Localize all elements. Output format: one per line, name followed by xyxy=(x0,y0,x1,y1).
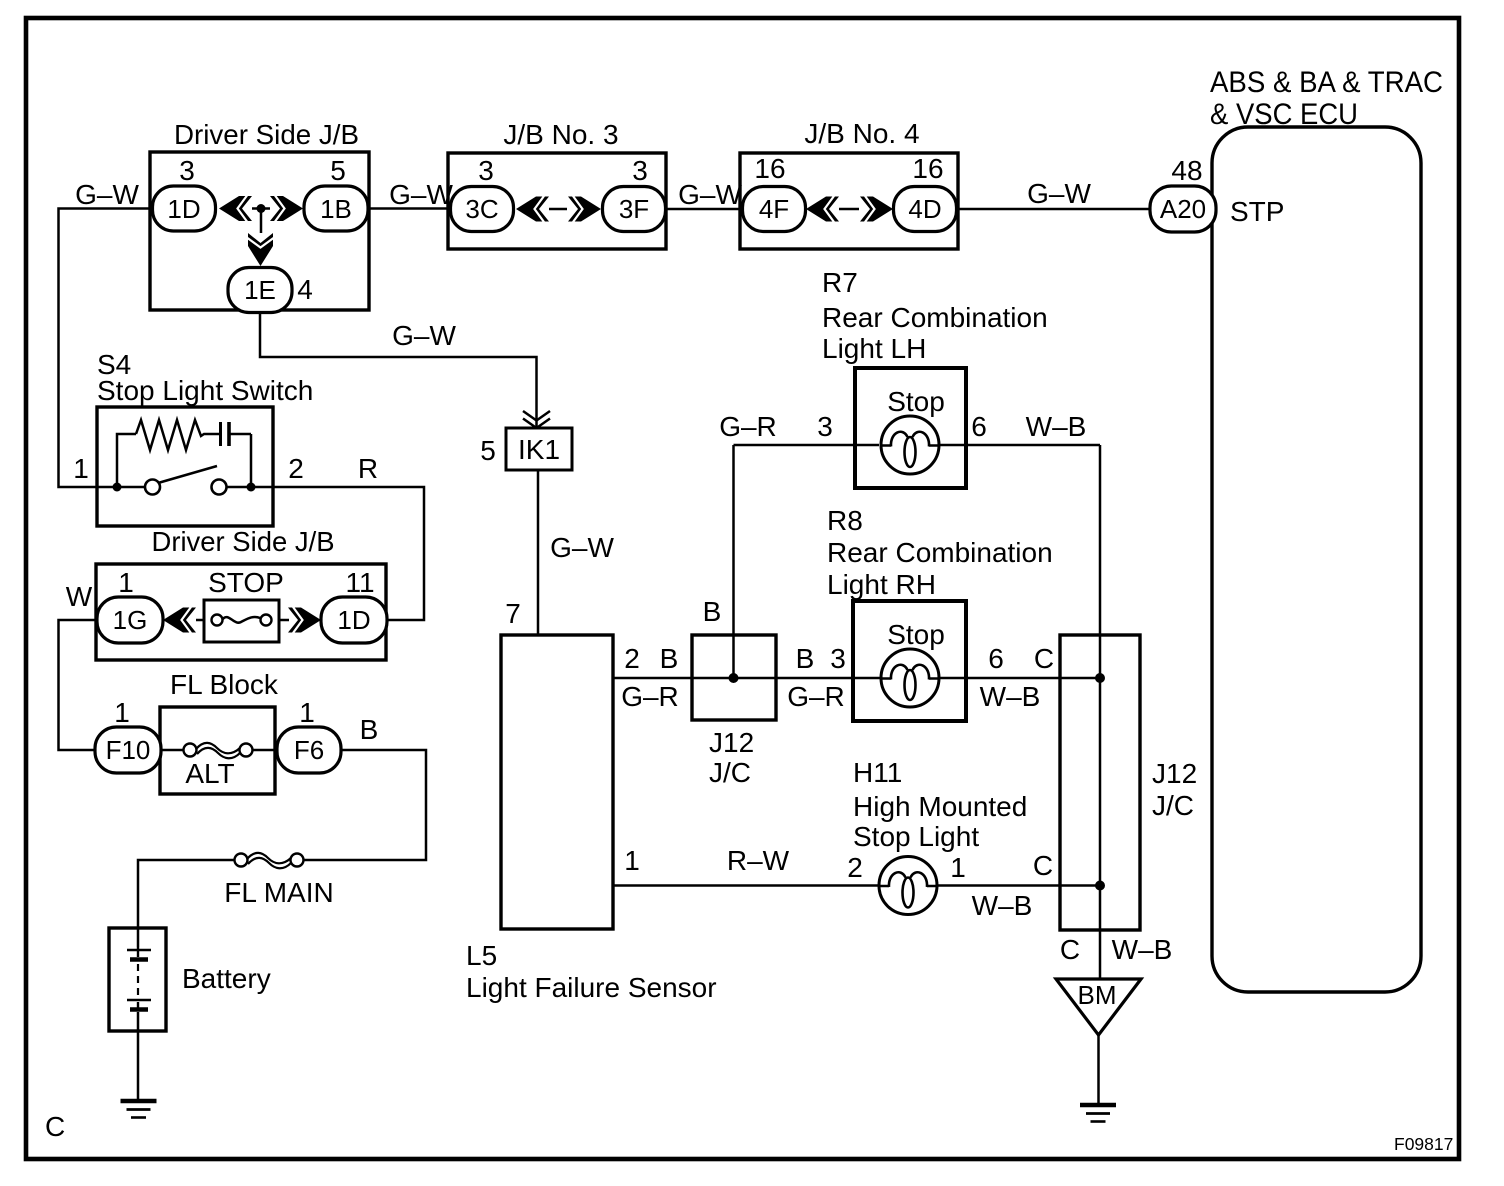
fusible link FL MAIN xyxy=(235,853,304,868)
junction node J12 right upper xyxy=(1095,673,1105,683)
lamp R7 Rear Combination Light LH xyxy=(822,267,1048,364)
svg-text:5: 5 xyxy=(480,435,496,466)
sensor L5 Light Failure Sensor xyxy=(466,635,717,1003)
bulb of R8 xyxy=(881,649,939,707)
svg-text:1D: 1D xyxy=(337,605,370,635)
svg-text:Light Failure Sensor: Light Failure Sensor xyxy=(466,972,717,1003)
svg-text:Light RH: Light RH xyxy=(827,569,936,600)
wire through FL block xyxy=(161,749,277,752)
svg-text:4F: 4F xyxy=(759,194,789,224)
wire B from F6 to battery via FL MAIN xyxy=(138,750,426,947)
svg-text:J12: J12 xyxy=(1152,758,1197,789)
svg-text:3: 3 xyxy=(179,155,195,186)
svg-text:J12: J12 xyxy=(709,727,754,758)
connector arrow toward 4D xyxy=(860,196,893,222)
wire internal jb3 xyxy=(549,208,567,211)
svg-text:J/B No. 3: J/B No. 3 xyxy=(503,119,618,150)
svg-text:G–W: G–W xyxy=(392,320,456,351)
svg-text:C: C xyxy=(1034,643,1054,674)
wire BM to ground xyxy=(1097,1035,1100,1103)
connector arrow toward 3F xyxy=(568,196,601,222)
svg-text:J/C: J/C xyxy=(709,757,751,788)
wire W from 1G to F10 xyxy=(59,620,98,750)
connector arrow toward 1E xyxy=(248,233,274,266)
svg-text:STP: STP xyxy=(1230,196,1284,227)
svg-text:Stop: Stop xyxy=(887,386,945,417)
wire S4 internal left branch xyxy=(117,434,136,487)
svg-text:G–W: G–W xyxy=(550,532,614,563)
svg-text:4: 4 xyxy=(297,274,313,305)
svg-text:3: 3 xyxy=(632,155,648,186)
wire R-W from L5 pin 1 to H11 and J12 right xyxy=(613,884,1100,887)
svg-text:F6: F6 xyxy=(294,735,324,765)
svg-text:11: 11 xyxy=(345,567,374,598)
svg-text:Driver Side J/B: Driver Side J/B xyxy=(152,526,335,557)
svg-text:1E: 1E xyxy=(244,275,276,305)
wire G-W from 4D to A20 xyxy=(956,208,1151,211)
label J12 J/C left xyxy=(709,727,754,788)
wire G-R from J12 to R7 pin 3 xyxy=(734,444,880,447)
svg-text:6: 6 xyxy=(971,411,987,442)
svg-text:1D: 1D xyxy=(167,194,200,224)
connector arrow toward 3C xyxy=(516,196,549,222)
svg-text:7: 7 xyxy=(505,598,521,629)
svg-text:1: 1 xyxy=(624,845,640,876)
svg-text:FL MAIN: FL MAIN xyxy=(224,877,333,908)
switch S4 Stop Light Switch xyxy=(97,349,313,526)
svg-text:2: 2 xyxy=(847,852,863,883)
svg-text:W–B: W–B xyxy=(980,681,1041,712)
ground battery xyxy=(121,1101,157,1118)
svg-text:16: 16 xyxy=(754,153,785,184)
svg-text:2: 2 xyxy=(288,453,304,484)
svg-text:G–W: G–W xyxy=(75,179,139,210)
svg-text:W–B: W–B xyxy=(1112,934,1173,965)
svg-text:A20: A20 xyxy=(1160,194,1206,224)
connector 3F xyxy=(603,187,666,232)
connector 4D xyxy=(894,187,957,232)
connector arrow toward 4F xyxy=(806,196,839,222)
lamp box R8 xyxy=(853,601,966,721)
svg-text:6: 6 xyxy=(988,643,1004,674)
lamp box R7 xyxy=(855,368,966,488)
bulb of R7 xyxy=(881,416,939,474)
svg-text:ALT: ALT xyxy=(185,758,234,789)
junction block Driver Side J/B (lower) xyxy=(96,526,386,660)
svg-text:J/B No. 4: J/B No. 4 xyxy=(804,118,919,149)
svg-text:High Mounted: High Mounted xyxy=(853,791,1027,822)
svg-text:4D: 4D xyxy=(908,194,941,224)
svg-text:H11: H11 xyxy=(853,757,902,788)
svg-text:Driver Side J/B: Driver Side J/B xyxy=(174,119,359,150)
svg-text:G–R: G–R xyxy=(787,681,845,712)
connector 1D lower xyxy=(321,597,387,643)
switch contact right xyxy=(212,480,227,495)
fusible link ALT xyxy=(184,743,253,758)
connector arrow toward 1D xyxy=(219,196,252,222)
svg-text:1: 1 xyxy=(114,697,130,728)
junction block J12 J/C (right) xyxy=(1060,635,1140,930)
svg-text:Rear Combination: Rear Combination xyxy=(822,302,1048,333)
label J12 J/C right xyxy=(1152,758,1197,821)
junction block J/B Driver Side (upper) xyxy=(150,119,369,310)
fuse STOP xyxy=(204,600,279,642)
wire W-B from R7 pin 6 to J12 right xyxy=(937,444,1100,447)
svg-text:3: 3 xyxy=(817,411,833,442)
junction block J/B No. 4 xyxy=(740,118,958,249)
wire G-W from 1B to 3C xyxy=(368,207,451,210)
svg-text:1G: 1G xyxy=(113,605,148,635)
svg-text:2: 2 xyxy=(624,643,640,674)
svg-text:3C: 3C xyxy=(465,194,498,224)
connector arrow toward 1B xyxy=(270,196,303,222)
lamp H11 High Mounted Stop Light xyxy=(853,757,1027,852)
capacitor in S4 xyxy=(219,422,222,446)
svg-text:F10: F10 xyxy=(106,735,151,765)
svg-text:C: C xyxy=(1033,850,1053,881)
svg-text:R8: R8 xyxy=(827,505,863,536)
wire G-R from R7 down into J12 junction xyxy=(732,445,735,678)
svg-text:IK1: IK1 xyxy=(518,434,560,465)
svg-text:1: 1 xyxy=(73,453,89,484)
svg-text:B: B xyxy=(360,714,379,745)
svg-text:B: B xyxy=(703,596,722,627)
svg-text:Stop Light Switch: Stop Light Switch xyxy=(97,375,313,406)
wire S4 main contact row xyxy=(97,486,273,489)
svg-text:3F: 3F xyxy=(619,194,649,224)
bulb of H11 xyxy=(879,857,937,915)
svg-text:3: 3 xyxy=(478,155,494,186)
svg-text:L5: L5 xyxy=(466,940,497,971)
connector 1G xyxy=(97,597,163,643)
ground BM xyxy=(1080,1105,1116,1122)
connector 1D xyxy=(153,186,216,231)
wire from L5 pin 2 through J12 to R8 pin 3 and J12 right xyxy=(613,677,1100,680)
svg-text:R: R xyxy=(358,453,378,484)
connector arrow toward 1D xyxy=(288,607,321,633)
svg-text:W–B: W–B xyxy=(972,890,1033,921)
connector F10 xyxy=(95,727,161,773)
svg-text:48: 48 xyxy=(1171,155,1202,186)
svg-text:W–B: W–B xyxy=(1026,411,1087,442)
svg-text:R–W: R–W xyxy=(727,845,790,876)
wire fuse to arrows xyxy=(196,619,289,622)
svg-text:G–W: G–W xyxy=(678,179,742,210)
svg-text:STOP: STOP xyxy=(208,567,284,598)
connector chevrons into IK1 xyxy=(523,411,550,428)
switch contact left xyxy=(145,480,160,495)
svg-text:5: 5 xyxy=(330,155,346,186)
svg-text:1: 1 xyxy=(299,697,315,728)
svg-text:Stop: Stop xyxy=(887,619,945,650)
svg-text:FL Block: FL Block xyxy=(170,669,279,700)
relay block IK1 xyxy=(506,428,572,470)
svg-text:1: 1 xyxy=(950,852,966,883)
svg-text:G–R: G–R xyxy=(719,411,777,442)
connector F6 xyxy=(277,727,341,773)
svg-text:B: B xyxy=(796,643,815,674)
wire G-W from 1D to stop light switch pin 1 xyxy=(59,209,153,488)
svg-text:Stop Light: Stop Light xyxy=(853,821,979,852)
svg-text:W: W xyxy=(66,581,93,612)
svg-text:R7: R7 xyxy=(822,267,858,298)
resistor in S4 xyxy=(136,420,219,450)
svg-text:G–W: G–W xyxy=(1027,178,1091,209)
wire battery to ground xyxy=(137,1012,140,1099)
switch blade xyxy=(158,466,217,483)
connector 1B xyxy=(304,186,368,231)
connector arrow toward 1G xyxy=(163,607,196,633)
wire G-W from 3F to 4F xyxy=(665,208,742,211)
svg-text:J/C: J/C xyxy=(1152,790,1194,821)
connector 3C xyxy=(451,187,514,232)
svg-text:16: 16 xyxy=(912,153,943,184)
svg-text:C: C xyxy=(45,1111,65,1142)
svg-text:G–W: G–W xyxy=(389,179,453,210)
wire R from S4 pin 2 to 1D(11) xyxy=(273,487,424,620)
svg-text:ABS & BA & TRAC: ABS & BA & TRAC xyxy=(1210,66,1443,99)
junction node J12 right lower xyxy=(1095,881,1105,891)
junction node in Driver Side J/B xyxy=(257,204,266,213)
svg-text:BM: BM xyxy=(1078,980,1117,1010)
svg-text:C: C xyxy=(1060,934,1080,965)
ground connector BM xyxy=(1056,979,1141,1035)
svg-text:Rear Combination: Rear Combination xyxy=(827,537,1053,568)
junction node in J12 left xyxy=(729,673,739,683)
svg-text:Battery: Battery xyxy=(182,963,271,994)
svg-text:F09817: F09817 xyxy=(1394,1134,1453,1154)
svg-text:B: B xyxy=(660,643,679,674)
wire G-W from 1E to IK1 xyxy=(260,313,537,429)
svg-text:G–R: G–R xyxy=(621,681,679,712)
wire W-B vertical through J12 right to BM xyxy=(1099,445,1102,979)
connector 4F xyxy=(743,187,806,232)
svg-text:1B: 1B xyxy=(320,194,352,224)
wire internal jb xyxy=(252,209,270,234)
battery xyxy=(109,928,166,1031)
junction node S4 left xyxy=(113,483,122,492)
junction node S4 right xyxy=(247,483,256,492)
connector A20 xyxy=(1150,186,1216,232)
junction block J/B No. 3 xyxy=(448,119,666,249)
svg-text:1: 1 xyxy=(118,567,134,598)
connector 1E xyxy=(228,268,292,313)
fuse block FL Block xyxy=(160,669,279,794)
lamp R8 Rear Combination Light RH xyxy=(827,505,1053,600)
ECU ABS & BA & TRAC & VSC ECU xyxy=(1210,66,1443,992)
wire internal jb4 xyxy=(839,208,859,211)
svg-text:Light LH: Light LH xyxy=(822,333,926,364)
wire S4 internal right branch xyxy=(229,434,251,487)
junction block J12 J/C (left) xyxy=(692,635,776,720)
svg-text:3: 3 xyxy=(830,643,846,674)
wire G-W from IK1 to L5 pin 7 xyxy=(537,470,540,635)
